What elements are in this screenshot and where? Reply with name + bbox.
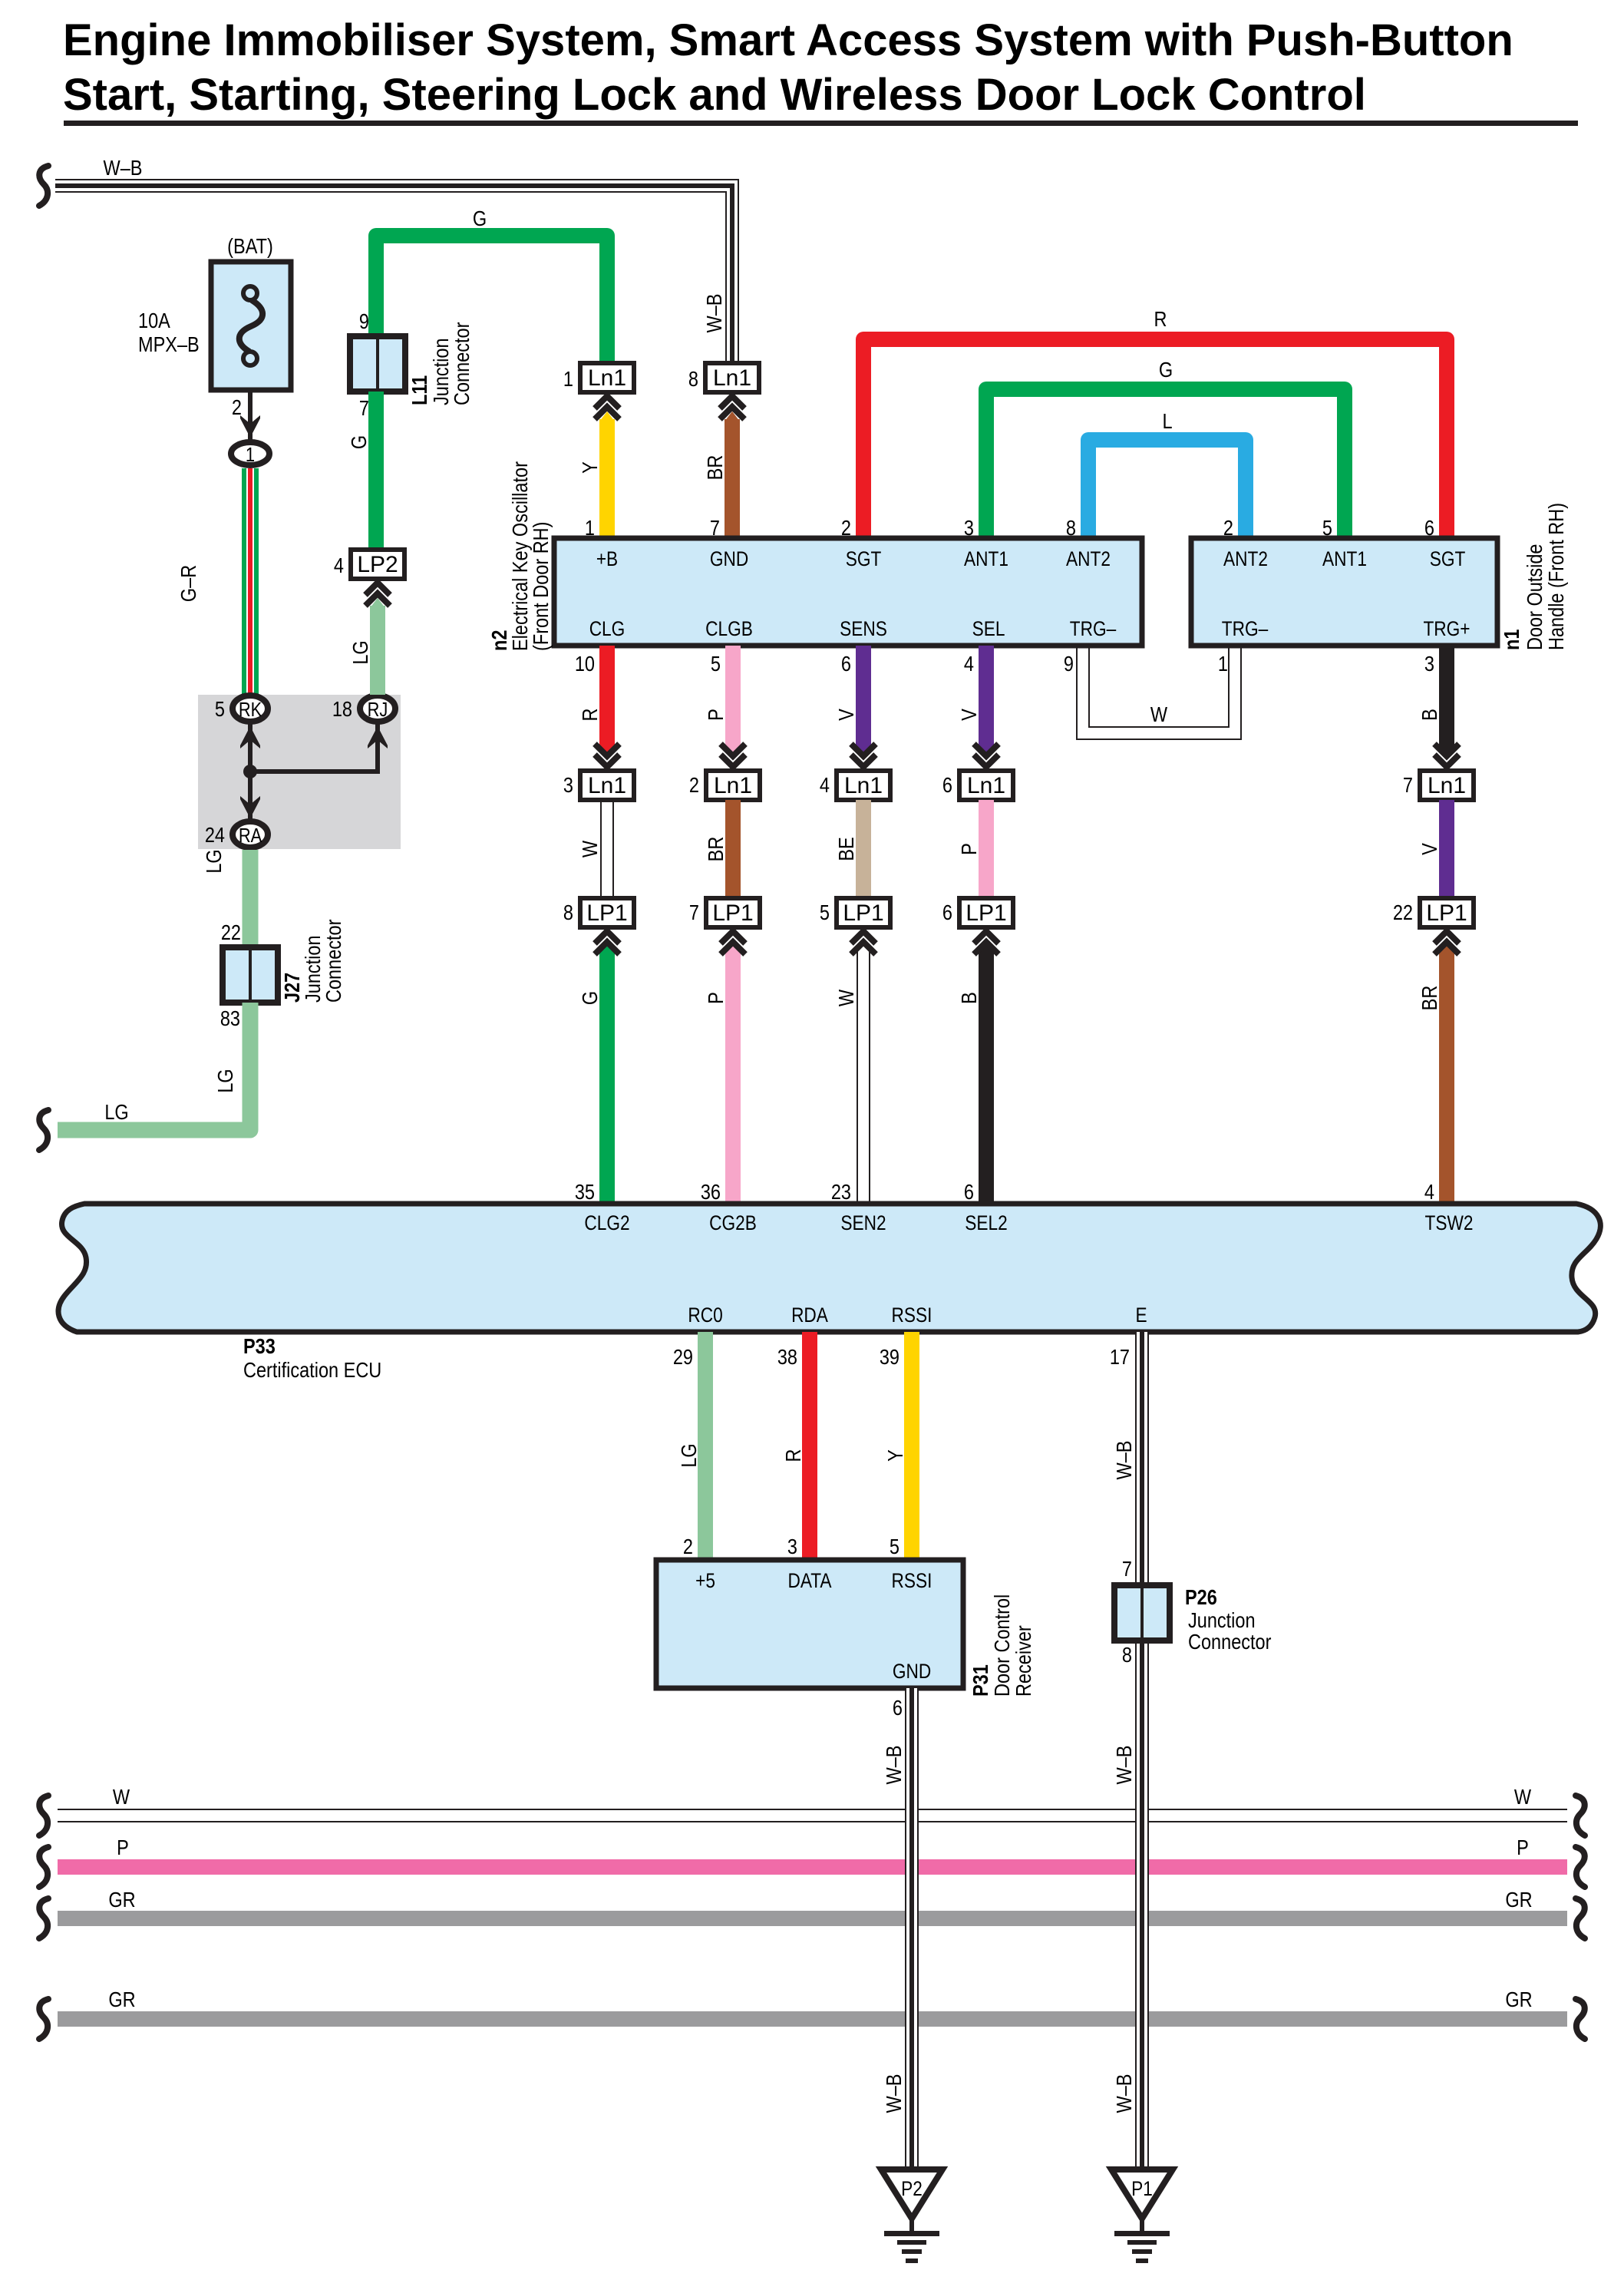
svg-text:GR: GR <box>108 1888 135 1912</box>
svg-text:18: 18 <box>332 698 352 721</box>
wire fuse to node 1 <box>240 390 260 441</box>
label G (antenna) <box>1159 359 1173 382</box>
wire V (n2 SEL to Ln1) <box>958 646 998 767</box>
svg-text:5: 5 <box>890 1535 899 1558</box>
svg-text:1: 1 <box>563 368 573 391</box>
ground P1 <box>1111 2169 1173 2263</box>
label Y <box>579 461 602 474</box>
svg-text:P1: P1 <box>1131 2177 1153 2200</box>
svg-text:3: 3 <box>563 774 573 797</box>
wire W-B (top, to Ln1 pin 8) <box>55 180 738 363</box>
wire B (LP1 to P33 SEL) <box>958 931 998 1204</box>
svg-text:SENS: SENS <box>840 617 887 640</box>
svg-text:TRG–: TRG– <box>1222 617 1269 640</box>
label LG (LP2-RJ) <box>349 640 372 664</box>
svg-text:BE: BE <box>835 837 858 861</box>
wire R (SGT to SGT) <box>863 339 1447 538</box>
connector Ln1 pin 6 (SEL) <box>942 771 1013 800</box>
connector LP1 pin 8 (CLG) <box>563 898 634 927</box>
svg-text:38: 38 <box>777 1346 797 1369</box>
svg-text:Door Outside: Door Outside <box>1523 544 1546 650</box>
wire LG (RA to J27) <box>243 850 259 950</box>
fuse 10A MPX-B <box>211 262 291 390</box>
connector LP1 pin 7 (CLGB) <box>689 898 760 927</box>
svg-text:P33: P33 <box>243 1335 276 1358</box>
label W-B (top wire) <box>104 157 143 180</box>
svg-text:Junction: Junction <box>1188 1609 1256 1632</box>
label n1 Door Outside Handle (Front RH) <box>1500 503 1568 650</box>
svg-text:V: V <box>835 708 858 720</box>
svg-text:P2: P2 <box>901 2177 923 2200</box>
svg-text:23: 23 <box>831 1181 851 1204</box>
wire L (ANT2 to ANT2) <box>1088 440 1246 538</box>
svg-text:+5: +5 <box>695 1569 715 1592</box>
connector Ln1 pin 4 (SENS) <box>820 771 890 800</box>
continuation brace (GR1 left) <box>39 1898 48 1938</box>
label G (L11-LP2) <box>348 435 371 449</box>
label (BAT) <box>227 235 273 258</box>
svg-text:22: 22 <box>1393 901 1413 924</box>
svg-text:CLGB: CLGB <box>705 617 753 640</box>
svg-text:+B: +B <box>596 547 618 570</box>
svg-text:P: P <box>705 709 728 721</box>
svg-text:17: 17 <box>1110 1346 1130 1369</box>
svg-text:LG: LG <box>104 1101 128 1124</box>
svg-text:3: 3 <box>1424 653 1434 676</box>
label W (bottom right) <box>1514 1786 1532 1809</box>
continuation brace (LG left) <box>39 1110 48 1150</box>
wire G (L11 to LP2) <box>368 392 384 550</box>
svg-text:RSSI: RSSI <box>892 1569 932 1592</box>
svg-text:24: 24 <box>205 824 225 847</box>
wire R (P33 RDA to P31 DATA) <box>777 1332 817 1560</box>
wire P (Ln1 to LP1, SEL) <box>958 800 994 898</box>
label G-R <box>177 565 200 602</box>
svg-text:6: 6 <box>942 774 952 797</box>
svg-text:TRG+: TRG+ <box>1423 617 1470 640</box>
pin 6 (n1 SGT) <box>1424 517 1434 540</box>
svg-text:R: R <box>579 709 602 722</box>
svg-text:W–B: W–B <box>703 294 726 333</box>
wire V (n2 SENS to Ln1) <box>835 646 876 767</box>
continuation brace (P left) <box>39 1847 48 1887</box>
wire G-R (node 1 to RK) <box>242 468 259 695</box>
svg-text:G: G <box>579 991 602 1005</box>
svg-text:CG2B: CG2B <box>709 1211 757 1234</box>
svg-text:LP1: LP1 <box>586 900 627 926</box>
svg-text:RK: RK <box>239 699 262 721</box>
label G (top loop) <box>473 207 487 230</box>
pin 18 (RJ) <box>332 698 352 721</box>
svg-text:W–B: W–B <box>104 157 143 180</box>
pin 7 (L11) <box>359 397 369 420</box>
pin 5 (RK) <box>215 698 225 721</box>
svg-text:DATA: DATA <box>787 1569 831 1592</box>
pin 22 (J27) <box>221 921 241 944</box>
wire BR (Ln1 to n2 GND) <box>725 411 740 538</box>
connector Ln1 pin 2 (CLGB) <box>689 771 760 800</box>
label L11 Junction Connector <box>408 322 474 405</box>
svg-text:RC0: RC0 <box>688 1304 722 1327</box>
svg-text:Connector: Connector <box>1188 1631 1272 1654</box>
ground P2 <box>881 2169 942 2263</box>
svg-text:ANT2: ANT2 <box>1066 547 1111 570</box>
wire W-B (P31 GND to ground P2) <box>883 1688 919 2169</box>
pin 3 (n2 ANT1) <box>964 517 974 540</box>
svg-text:SEN2: SEN2 <box>840 1211 886 1234</box>
label LG (RA-J27) <box>203 849 226 873</box>
pin 7 (P26) <box>1122 1558 1132 1581</box>
svg-text:4: 4 <box>1424 1181 1434 1204</box>
wire RK to junction <box>240 722 260 775</box>
svg-text:Ln1: Ln1 <box>714 773 752 798</box>
label 10A MPX-B <box>138 309 200 356</box>
wire BR (LP1 to P33 TRG+) <box>1418 931 1459 1204</box>
svg-text:Connector: Connector <box>451 322 474 405</box>
wire LG (J27 to brace) <box>58 1003 259 1130</box>
pin 1 (n1 TRG-) <box>1218 653 1228 676</box>
label P (bottom left) <box>117 1836 129 1859</box>
connector LP1 pin 5 (SENS) <box>820 898 890 927</box>
svg-text:TRG–: TRG– <box>1070 617 1117 640</box>
wire Y (P33 RSSI to P31 RSSI) <box>880 1332 919 1560</box>
svg-text:ANT2: ANT2 <box>1223 547 1268 570</box>
node RJ (pin 18) <box>360 696 395 722</box>
svg-text:LP1: LP1 <box>965 900 1006 926</box>
svg-text:R: R <box>1154 308 1167 331</box>
svg-text:B: B <box>958 992 981 1004</box>
wire Y (Ln1 to n2 +B) <box>599 411 615 538</box>
pin 4 (LP2) <box>334 554 344 577</box>
svg-text:Ln1: Ln1 <box>713 365 751 391</box>
svg-text:8: 8 <box>1122 1644 1132 1667</box>
svg-text:G: G <box>348 435 371 449</box>
label LG (J27-corner) <box>214 1069 237 1092</box>
svg-text:L: L <box>1162 410 1172 433</box>
wire G (ANT1 to ANT1) <box>986 389 1345 538</box>
svg-text:LG: LG <box>214 1069 237 1092</box>
continuation brace (top left W-B) <box>39 166 48 206</box>
pin 7 (n2 GND) <box>710 517 720 540</box>
pin 8 (n2 ANT2) <box>1066 517 1076 540</box>
svg-text:3: 3 <box>787 1535 797 1558</box>
connector Ln1 pin 3 (CLG) <box>563 771 634 800</box>
label P (bottom right) <box>1517 1836 1529 1859</box>
wire W (TRG- loop) <box>1076 646 1242 740</box>
svg-text:5: 5 <box>820 901 830 924</box>
svg-text:W: W <box>113 1786 130 1809</box>
pin 83 (J27) <box>220 1007 240 1030</box>
wire G (L11 loop to Ln1 pin 1) <box>376 236 607 363</box>
wire W (Ln1 to LP1, CLG) <box>579 800 614 898</box>
svg-text:2: 2 <box>689 774 699 797</box>
svg-text:P: P <box>117 1836 129 1859</box>
label W (TRG- loop) <box>1150 703 1168 726</box>
wire P (LP1 to P33 CLGB) <box>701 931 745 1204</box>
svg-text:Junction: Junction <box>430 338 453 405</box>
svg-text:V: V <box>1418 842 1441 854</box>
pin 1 (n2 +B) <box>585 517 595 540</box>
svg-text:GND: GND <box>893 1660 931 1683</box>
svg-text:V: V <box>958 708 981 720</box>
label J27 Junction Connector <box>281 919 345 1003</box>
svg-text:MPX–B: MPX–B <box>138 333 200 356</box>
svg-text:ANT1: ANT1 <box>964 547 1008 570</box>
svg-text:W–B: W–B <box>883 2074 906 2113</box>
connector LP1 pin 6 (SEL) <box>942 898 1013 927</box>
svg-text:Y: Y <box>579 461 602 474</box>
svg-text:LG: LG <box>349 640 372 664</box>
svg-text:7: 7 <box>1122 1558 1132 1581</box>
svg-text:LP2: LP2 <box>357 552 398 577</box>
svg-text:10: 10 <box>575 653 595 676</box>
connector Ln1 pin 1 <box>580 363 634 419</box>
svg-text:Electrical Key Oscillator: Electrical Key Oscillator <box>509 461 532 651</box>
svg-text:9: 9 <box>359 310 369 333</box>
svg-text:4: 4 <box>964 653 974 676</box>
wire GR (bottom bus 1) <box>58 1911 1567 1926</box>
svg-text:n2: n2 <box>488 630 511 651</box>
label W-B (vertical, above Ln1 8) <box>703 294 726 333</box>
wire W (LP1 to P33 SENS) <box>831 931 876 1204</box>
svg-text:9: 9 <box>1064 653 1074 676</box>
svg-text:2: 2 <box>683 1535 693 1558</box>
continuation brace (W right) <box>1576 1796 1585 1836</box>
label R (antenna) <box>1154 308 1167 331</box>
svg-text:LP1: LP1 <box>1426 900 1467 926</box>
ECU P33 Certification ECU <box>58 1204 1600 1332</box>
svg-text:SEL: SEL <box>972 617 1005 640</box>
connector Ln1 pin 8 <box>705 363 759 419</box>
svg-text:22: 22 <box>221 921 241 944</box>
svg-text:W: W <box>579 840 602 857</box>
junction connector J27 <box>223 947 278 1003</box>
svg-text:Ln1: Ln1 <box>844 773 883 798</box>
svg-text:LP1: LP1 <box>843 900 883 926</box>
svg-text:1: 1 <box>246 444 255 466</box>
svg-text:(BAT): (BAT) <box>227 235 273 258</box>
pin 2 (n2 SGT) <box>841 517 851 540</box>
svg-text:Connector: Connector <box>322 919 345 1003</box>
svg-text:W–B: W–B <box>883 1746 906 1785</box>
junction connector P26 <box>1114 1585 1170 1641</box>
wire V (Ln1 to LP1, TRG+) <box>1418 800 1454 898</box>
label LG (horizontal) <box>104 1101 128 1124</box>
svg-text:SEL2: SEL2 <box>965 1211 1007 1234</box>
svg-text:P: P <box>958 843 981 855</box>
svg-text:E: E <box>1135 1304 1147 1327</box>
svg-text:36: 36 <box>701 1181 721 1204</box>
connector LP2 (pin 4) <box>351 550 404 606</box>
label GR (bus1 right) <box>1505 1888 1532 1912</box>
svg-text:7: 7 <box>689 901 699 924</box>
svg-text:RJ: RJ <box>368 699 388 721</box>
continuation brace (P right) <box>1576 1847 1585 1887</box>
svg-text:4: 4 <box>820 774 830 797</box>
svg-text:SGT: SGT <box>846 547 882 570</box>
svg-text:W: W <box>1514 1786 1532 1809</box>
svg-text:GR: GR <box>1505 1988 1532 2011</box>
svg-text:BR: BR <box>1418 986 1441 1011</box>
svg-text:6: 6 <box>841 653 851 676</box>
svg-text:Handle (Front RH): Handle (Front RH) <box>1545 503 1568 650</box>
svg-text:LG: LG <box>203 849 226 873</box>
pin 2 (n1 ANT2) <box>1223 517 1233 540</box>
svg-text:6: 6 <box>942 901 952 924</box>
svg-text:J27: J27 <box>281 973 304 1003</box>
svg-text:n1: n1 <box>1500 629 1523 650</box>
label P33 Certification ECU <box>243 1335 381 1382</box>
connector Ln1 pin 7 (TRG+) <box>1403 771 1474 800</box>
svg-text:6: 6 <box>893 1697 903 1720</box>
svg-text:P31: P31 <box>969 1664 992 1697</box>
wire B (n2 TRG+ to Ln1) <box>1418 646 1459 767</box>
svg-text:CLG2: CLG2 <box>584 1211 629 1234</box>
svg-text:B: B <box>1418 709 1441 721</box>
wire LG (LP2 to RJ) <box>370 598 385 695</box>
svg-text:G: G <box>473 207 487 230</box>
svg-text:LP1: LP1 <box>712 900 753 926</box>
title <box>63 15 1578 126</box>
wire GR (bottom bus 2) <box>58 2011 1567 2027</box>
svg-text:39: 39 <box>880 1346 899 1369</box>
svg-text:RSSI: RSSI <box>892 1304 932 1327</box>
connector LP1 pin 22 (TRG+) <box>1393 898 1474 927</box>
pin 9 (n2 TRG-) <box>1064 653 1074 676</box>
pin 8 (P26) <box>1122 1644 1132 1667</box>
svg-text:P26: P26 <box>1185 1586 1217 1609</box>
svg-text:Ln1: Ln1 <box>588 773 626 798</box>
continuation brace (W left) <box>39 1796 48 1836</box>
svg-text:LG: LG <box>678 1443 701 1467</box>
svg-text:35: 35 <box>575 1181 595 1204</box>
svg-text:7: 7 <box>359 397 369 420</box>
svg-text:CLG: CLG <box>589 617 626 640</box>
svg-text:Certification ECU: Certification ECU <box>243 1359 381 1382</box>
label L (antenna) <box>1162 410 1172 433</box>
node RK (pin 5) <box>233 696 268 722</box>
svg-text:2: 2 <box>232 396 242 419</box>
label GR (bus2 left) <box>108 1988 135 2011</box>
continuation brace (GR2 right) <box>1576 1999 1585 2039</box>
svg-text:RDA: RDA <box>791 1304 828 1327</box>
label P26 Junction Connector <box>1185 1586 1272 1654</box>
svg-text:GR: GR <box>108 1988 135 2011</box>
svg-text:Start, Starting, Steering Lock: Start, Starting, Steering Lock and Wirel… <box>63 70 1366 120</box>
svg-text:GND: GND <box>710 547 748 570</box>
svg-text:(Front Door RH): (Front Door RH) <box>530 521 553 651</box>
svg-text:Receiver: Receiver <box>1012 1625 1035 1697</box>
svg-text:7: 7 <box>1403 774 1413 797</box>
relay block (gray) <box>198 695 401 849</box>
svg-text:G: G <box>1159 359 1173 382</box>
svg-text:W: W <box>835 989 858 1006</box>
wire LG (P33 RC0 to P31 +5) <box>673 1332 713 1560</box>
continuation brace (GR2 left) <box>39 1999 48 2039</box>
continuation brace (GR1 right) <box>1576 1898 1585 1938</box>
svg-text:W–B: W–B <box>1113 2074 1136 2113</box>
wire junction to RJ <box>248 722 388 774</box>
svg-text:4: 4 <box>334 554 344 577</box>
svg-text:Ln1: Ln1 <box>1428 773 1466 798</box>
wire junction to RA <box>240 772 260 819</box>
svg-text:GR: GR <box>1505 1888 1532 1912</box>
wire G (LP1 to P33 CLG) <box>575 931 619 1204</box>
label P31 Door Control Receiver <box>969 1594 1035 1697</box>
svg-text:L11: L11 <box>408 375 431 405</box>
label BR <box>704 455 727 481</box>
svg-text:5: 5 <box>215 698 225 721</box>
pin 24 (RA) <box>205 824 225 847</box>
svg-text:Ln1: Ln1 <box>588 365 626 391</box>
wire BR (Ln1 to LP1, CLGB) <box>705 800 741 898</box>
svg-text:TSW2: TSW2 <box>1425 1211 1474 1234</box>
node 1 <box>231 442 269 466</box>
svg-text:Junction: Junction <box>302 935 325 1003</box>
svg-text:RA: RA <box>239 824 262 847</box>
label n2 Electrical Key Oscillator (Front Door RH) <box>488 461 553 651</box>
svg-text:10A: 10A <box>138 309 171 332</box>
svg-text:P: P <box>1517 1836 1529 1859</box>
svg-text:Door Control: Door Control <box>991 1594 1014 1697</box>
wire BE (Ln1 to LP1, SENS) <box>835 800 871 898</box>
svg-text:1: 1 <box>1218 653 1228 676</box>
svg-text:Ln1: Ln1 <box>967 773 1005 798</box>
label GR (bus2 right) <box>1505 1988 1532 2011</box>
node RA (pin 24) <box>233 821 268 848</box>
svg-text:W–B: W–B <box>1113 1746 1136 1785</box>
junction connector L11 <box>350 336 405 392</box>
pin 2 (fuse) <box>232 396 242 419</box>
pin 5 (n1 ANT1) <box>1322 517 1332 540</box>
svg-text:29: 29 <box>673 1346 693 1369</box>
wire R (n2 CLG to Ln1) <box>575 646 619 767</box>
svg-text:P: P <box>705 992 728 1004</box>
label GR (bus1 left) <box>108 1888 135 1912</box>
wire W (bottom bus) <box>58 1809 1567 1822</box>
label W (bottom left) <box>113 1786 130 1809</box>
svg-text:8: 8 <box>563 901 573 924</box>
svg-text:83: 83 <box>220 1007 240 1030</box>
junction dot <box>243 765 257 778</box>
svg-text:SGT: SGT <box>1430 547 1466 570</box>
svg-text:ANT1: ANT1 <box>1322 547 1367 570</box>
ECU P31 Door Control Receiver <box>656 1560 963 1688</box>
wire W-B (P33 E to P26 to ground P1) <box>1110 1332 1149 2169</box>
pin 9 (L11) <box>359 310 369 333</box>
wire P (n2 CLGB to Ln1) <box>705 646 745 767</box>
svg-text:6: 6 <box>964 1181 974 1204</box>
pin 1 (Ln1) <box>563 368 573 391</box>
ECU n2 Electrical Key Oscillator <box>554 538 1142 646</box>
svg-text:5: 5 <box>711 653 721 676</box>
wire P (bottom bus) <box>58 1859 1567 1875</box>
pin 8 (Ln1) <box>688 368 698 391</box>
svg-text:R: R <box>782 1449 805 1462</box>
svg-text:W: W <box>1150 703 1168 726</box>
svg-text:G–R: G–R <box>177 565 200 602</box>
svg-text:8: 8 <box>688 368 698 391</box>
svg-text:Engine Immobiliser System, Sma: Engine Immobiliser System, Smart Access … <box>63 15 1513 65</box>
svg-text:BR: BR <box>705 837 728 862</box>
ECU n1 Door Outside Handle <box>1191 538 1497 646</box>
svg-text:BR: BR <box>704 455 727 481</box>
svg-text:W–B: W–B <box>1113 1441 1136 1480</box>
svg-text:Y: Y <box>884 1449 907 1462</box>
